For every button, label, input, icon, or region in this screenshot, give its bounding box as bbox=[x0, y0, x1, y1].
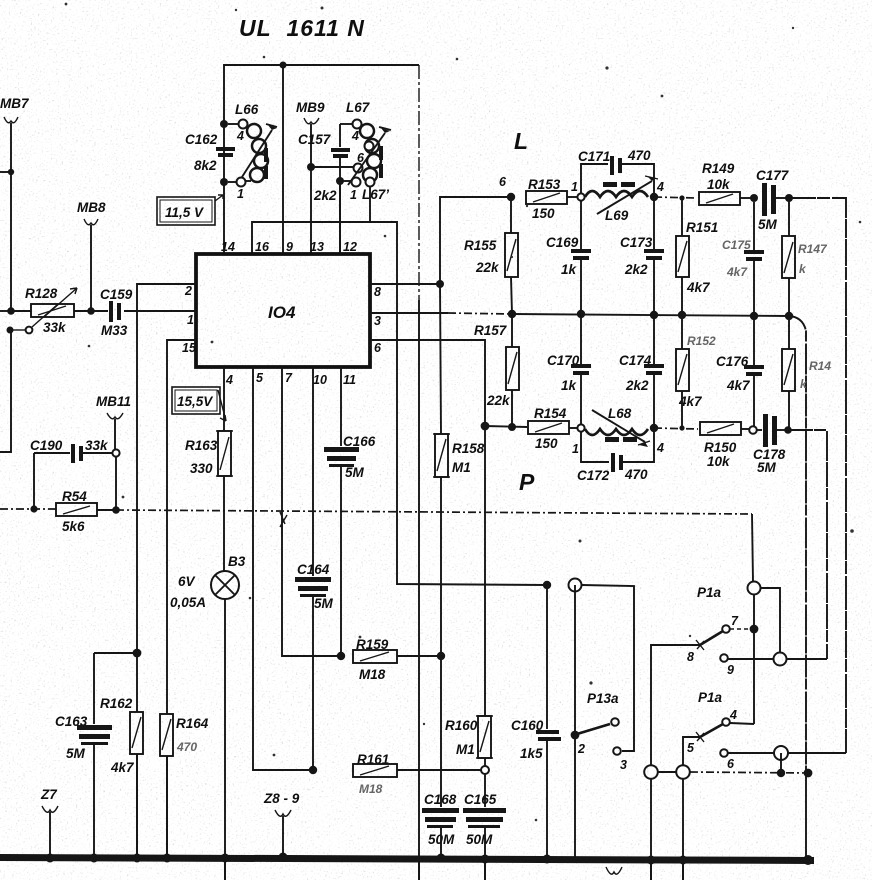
wire pin1 left bbox=[124, 310, 196, 312]
wire right box edge bbox=[418, 65, 420, 300]
wire L row dashes to R149 bbox=[654, 197, 697, 198]
resistor R161 bbox=[309, 766, 317, 774]
arrow L68 slug bbox=[592, 410, 645, 442]
top box wire bbox=[224, 65, 419, 122]
contact 6 bbox=[720, 749, 728, 757]
node MB7 stub bbox=[0, 171, 11, 173]
resistor R160 bbox=[484, 426, 486, 716]
op-amp IC IO4 bbox=[196, 254, 370, 367]
connector row bottom bbox=[644, 765, 658, 779]
wire riser pin8 to L row bbox=[440, 197, 507, 284]
wire risers to bus bbox=[650, 778, 652, 880]
core L67 bbox=[379, 146, 383, 178]
node pin7 rail cross mark bbox=[280, 512, 287, 537]
resistor R158 bbox=[440, 284, 441, 434]
wire P13a row bbox=[397, 580, 547, 585]
wire L67 bottom tap bbox=[336, 177, 344, 185]
wire pin6 row bbox=[370, 340, 485, 426]
resistor R164 bbox=[160, 714, 173, 756]
capacitor C160 bbox=[546, 585, 548, 729]
wire pin8 bbox=[370, 283, 440, 285]
node top box junction bbox=[280, 62, 287, 69]
wire pin7 down bbox=[282, 367, 338, 656]
node R128 wiper bbox=[7, 327, 14, 334]
wire C178 right to mid riser bbox=[788, 430, 827, 659]
connector mark below bus bbox=[606, 867, 622, 874]
wire pin10 down bbox=[312, 367, 314, 576]
resistor R159 bbox=[337, 652, 345, 660]
arrow L66 slug bbox=[242, 130, 272, 177]
node P row left bbox=[481, 422, 490, 431]
wire P1a circle link bbox=[761, 588, 780, 652]
node MB9 tap bbox=[307, 163, 315, 171]
arrow L69 slug bbox=[597, 181, 652, 214]
node R153 left bbox=[507, 193, 515, 201]
wire pin5 down bbox=[253, 367, 309, 770]
wire pin16 row bbox=[252, 222, 397, 580]
wire C162 bbox=[223, 124, 225, 254]
wire L67 secondary to pin16 row bbox=[369, 187, 371, 222]
contact 8 blade bbox=[700, 631, 723, 645]
node C176 bottom bbox=[749, 426, 757, 434]
wire C177 right to far right riser bbox=[789, 198, 846, 753]
resistor R150 bbox=[700, 422, 741, 435]
wire pin3 hook to right riser bbox=[789, 316, 806, 773]
wire below-bus stubs bbox=[225, 858, 683, 880]
core L66 bbox=[264, 148, 268, 179]
wire rail 15.5 dashed bbox=[0, 508, 56, 510]
wire pin3 row bbox=[370, 312, 448, 314]
wire pin2 left bbox=[137, 284, 196, 858]
wire pin11 down bbox=[340, 367, 342, 446]
wire pin9 riser bbox=[282, 65, 284, 254]
wire P row dashes to R150 bbox=[654, 428, 698, 429]
label box 15,5V bbox=[172, 387, 226, 421]
capacitor C172 bbox=[581, 431, 609, 462]
label box 11,5V bbox=[157, 195, 223, 225]
wire pin15 left down bbox=[167, 340, 196, 858]
ground bus bbox=[0, 854, 814, 864]
contact 5 blade bbox=[700, 724, 723, 737]
capacitor C178 bbox=[757, 429, 762, 431]
wire C190 legs bbox=[33, 453, 35, 509]
wire pin4 down bbox=[223, 367, 225, 431]
contact 9 bbox=[720, 654, 728, 662]
arrow L67 slug bbox=[348, 133, 385, 185]
capacitor C163 bbox=[94, 652, 137, 654]
wire wiper down-left bbox=[0, 330, 11, 452]
wire pin12 bbox=[339, 181, 341, 254]
